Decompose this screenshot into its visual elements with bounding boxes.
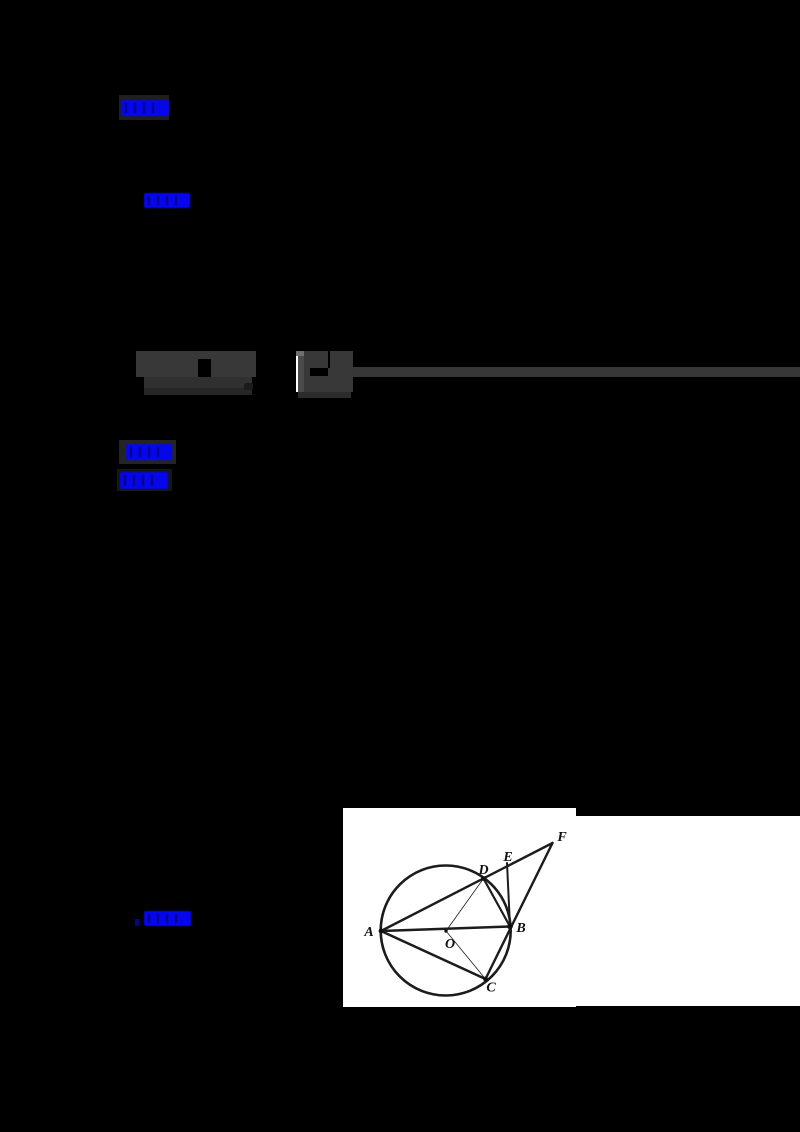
svg-text:A: A [363,925,373,940]
chord DB [484,879,511,927]
text cursor white bar [296,356,299,392]
geometry figure svg [343,808,576,1007]
radius OC thin [446,931,486,979]
white right panel (transparent-white in source) [576,816,800,1006]
label 4 faint highlight [117,469,172,491]
label 5 blue blob [144,911,191,926]
secant A-D-E-F [381,843,553,931]
label 1 blue blob [121,100,169,116]
text cursor light cap [296,351,304,356]
label 4 blue blob [120,472,168,489]
label 2 blue blob [144,193,190,208]
point C [483,977,488,982]
cluster 1 dark comma blob [244,383,253,390]
diameter AB [381,927,510,932]
gray heading cluster 1 [136,351,256,377]
svg-text:F: F [556,830,567,845]
svg-text:D: D [477,863,488,878]
speck near label 5 [135,919,139,926]
line F-B-C [486,843,553,979]
segment BE [507,863,510,927]
figure white box [343,808,576,1007]
cluster 2 bottom sliver [298,392,351,398]
cluster 2 black notch [310,368,328,376]
label 3 blue blob [126,444,172,460]
radius OD thin [446,879,484,932]
cluster 2 top divider [328,351,330,368]
svg-text:B: B [515,921,525,936]
cluster 1 black notch [198,359,211,378]
gray heading cluster 2 [304,351,353,392]
chord AC [381,931,486,979]
label box 3 highlight [119,440,176,464]
svg-text:O: O [445,937,455,952]
svg-text:C: C [486,981,496,996]
point O [444,929,447,932]
point B [507,924,513,930]
circle O [381,866,511,996]
point D [481,876,486,881]
long gray band [353,367,800,377]
label box 1 highlight [119,95,169,120]
svg-text:E: E [502,850,512,865]
cluster 1 lower band [144,377,252,388]
gray heading cluster 2 column [298,356,304,392]
cluster 1 bottom sliver [144,388,252,395]
point A [379,929,384,934]
